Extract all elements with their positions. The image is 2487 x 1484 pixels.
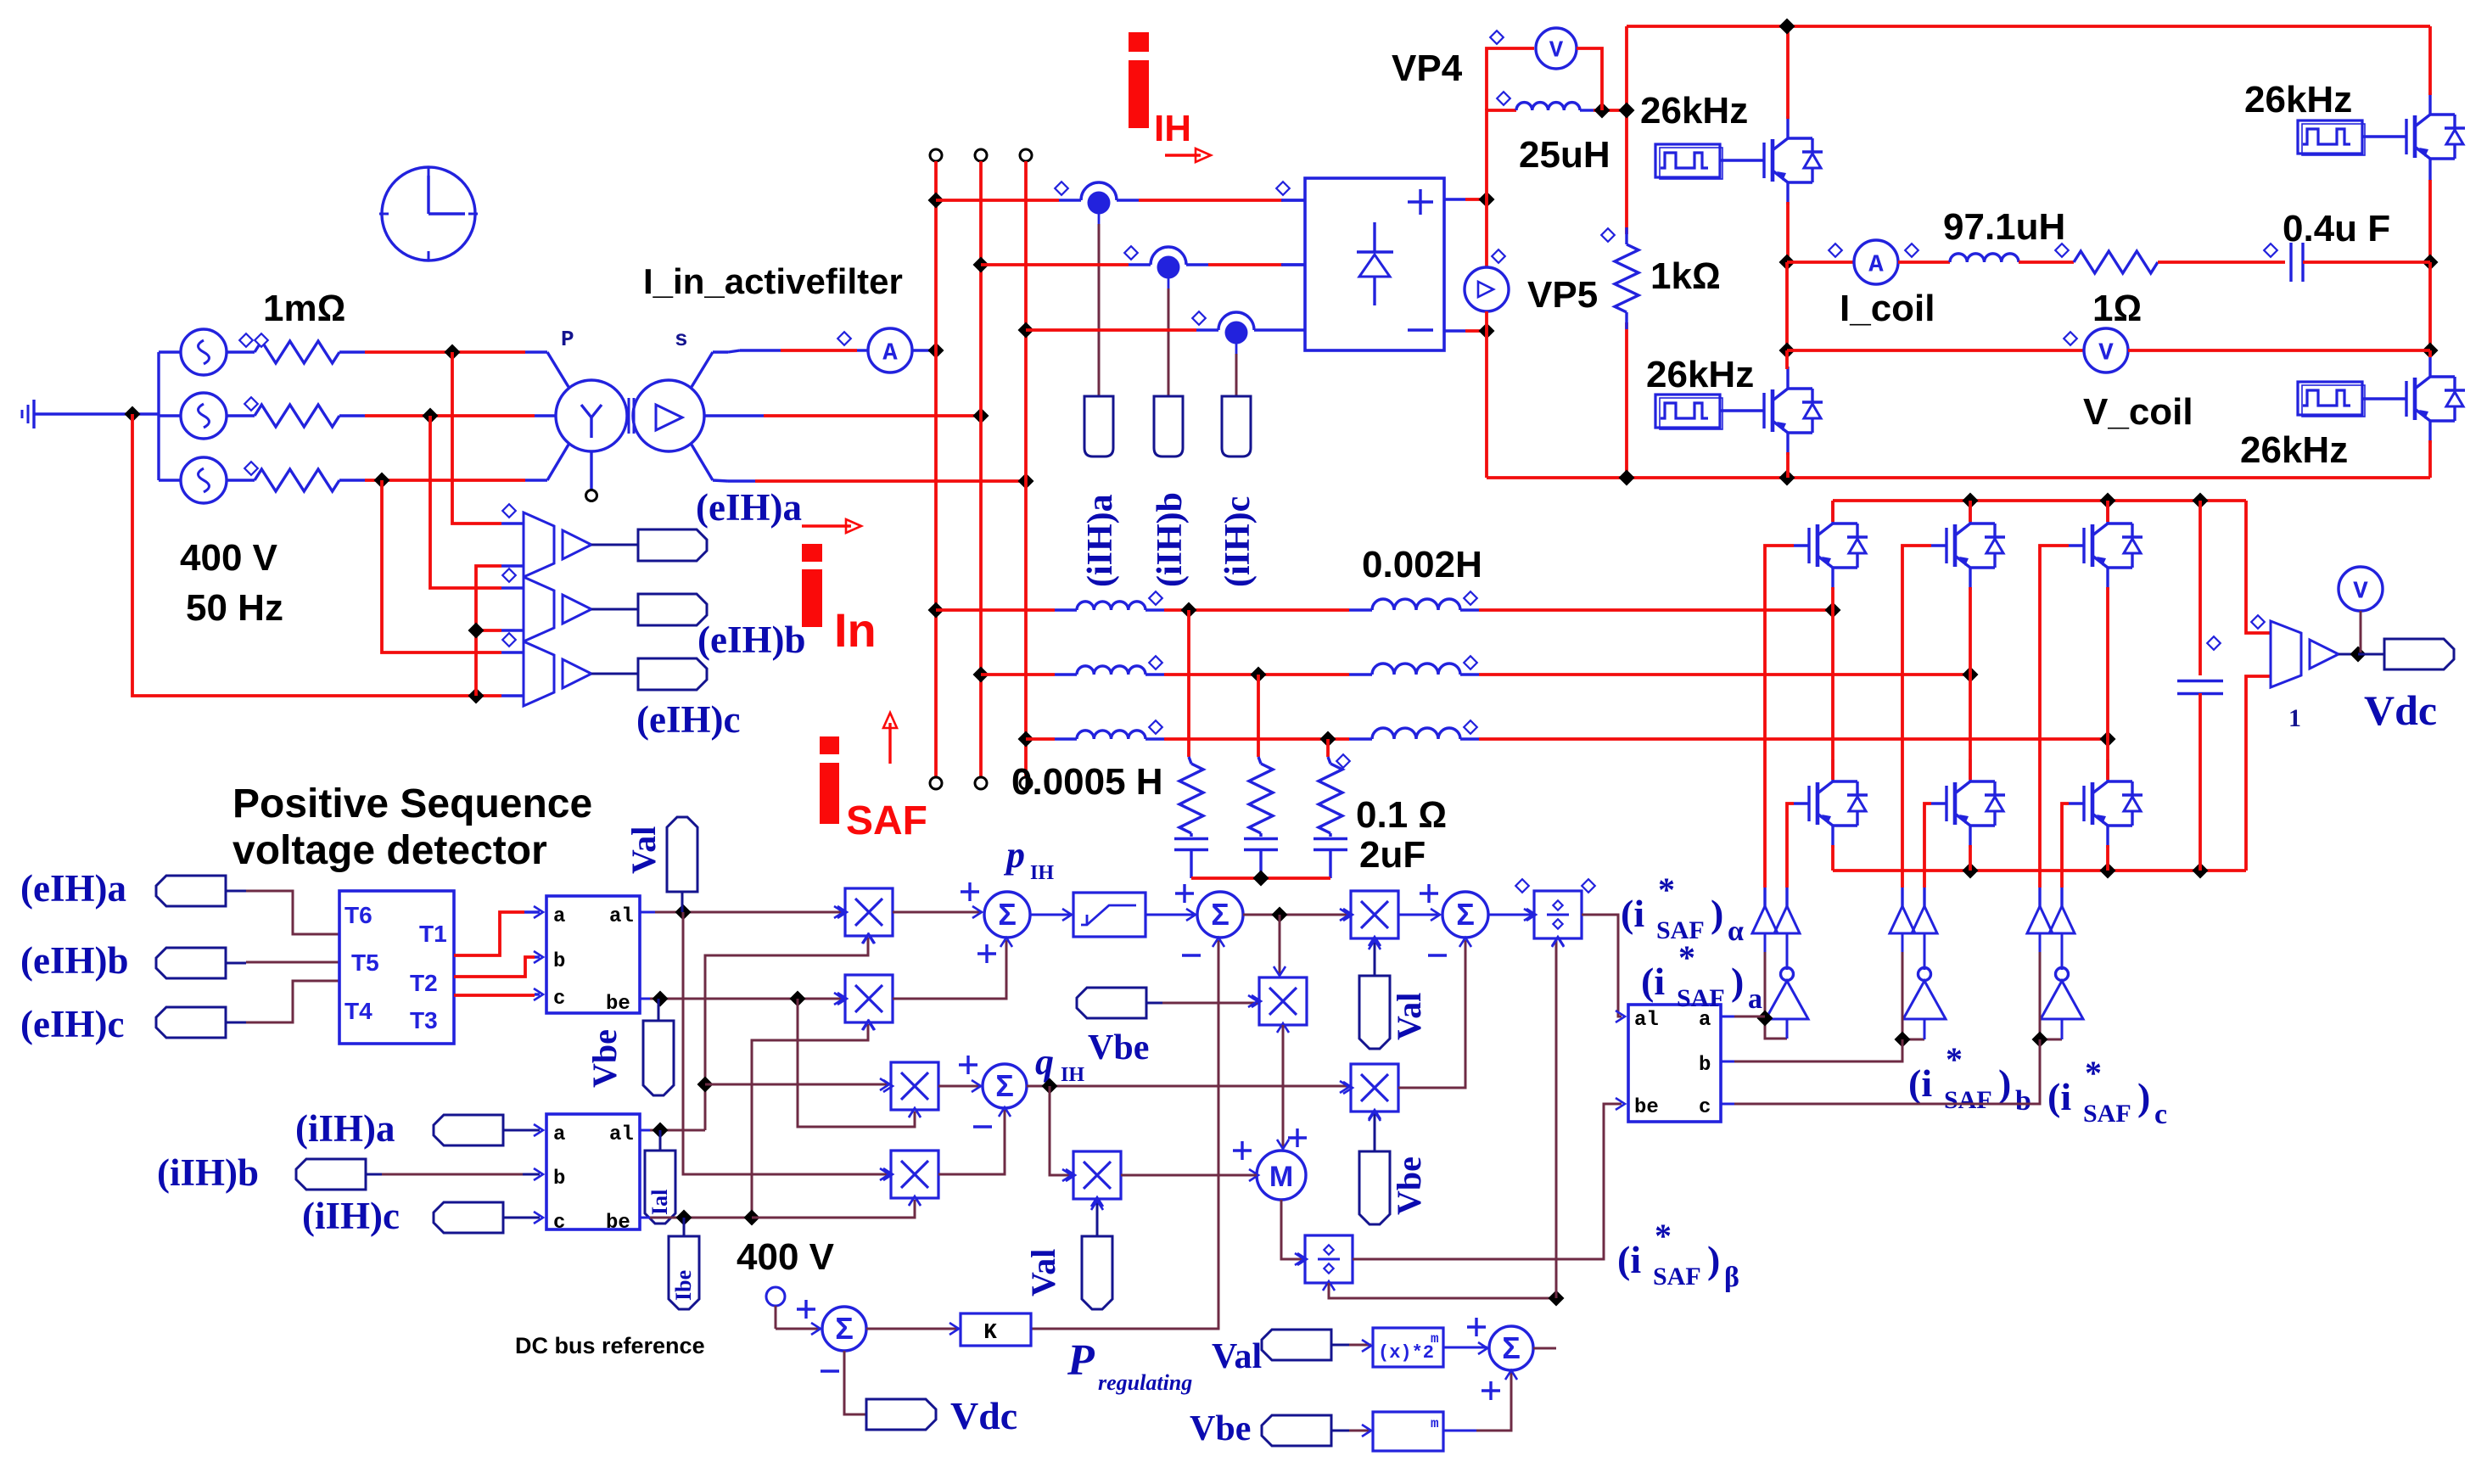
multiplier q2: [891, 1151, 938, 1198]
wire saf right bottom: [2246, 676, 2271, 871]
svg-text:VP4: VP4: [1392, 48, 1463, 89]
wire T2 to b: [454, 957, 535, 977]
wire 25uH to bus: [1594, 109, 1627, 112]
label minus sum3: [1428, 954, 1447, 956]
arrow i direction (eIH)a: [802, 524, 851, 527]
svg-text:c: c: [2154, 1099, 2167, 1130]
svg-text:IH: IH: [1030, 862, 1054, 884]
wire T1 to a: [454, 912, 524, 955]
wire Sb bottom emitter: [1969, 845, 1972, 871]
label box (iIH)a sensor: [1084, 396, 1113, 456]
label box (eIH)a input: [156, 876, 226, 906]
wire gate bottom left: [1720, 409, 1749, 412]
svg-text:SAF: SAF: [1944, 1086, 1992, 1114]
resistor R1b 1mOhm: [227, 414, 255, 417]
label box Vbe vertical: [643, 1021, 674, 1095]
inductor L2c 0.002H: [1349, 737, 1372, 740]
node load branch left: [1779, 255, 1795, 271]
terminal feeder a: [930, 149, 942, 161]
svg-text:(x)*2: (x)*2: [1378, 1342, 1434, 1364]
label i IH red: [1129, 32, 1149, 52]
multiplier M: [1257, 1151, 1306, 1200]
svg-text:400 V: 400 V: [737, 1236, 835, 1278]
transformer T1 primary Y: [525, 350, 547, 353]
wire Vbe output: [640, 998, 650, 1000]
svg-text:m: m: [1431, 1331, 1439, 1347]
wire feeder b vertical: [979, 161, 983, 777]
wire mult q4 to sum3: [1398, 940, 1465, 1088]
wire Vbe pill to mult vb: [1162, 1002, 1258, 1005]
label plus sum3: [1420, 892, 1438, 894]
label box Ibe vertical: [669, 1236, 699, 1309]
node ground junction: [125, 406, 141, 423]
svg-text:Vdc: Vdc: [950, 1394, 1017, 1437]
wire cap to right leg: [2303, 260, 2430, 264]
svg-text:M: M: [1269, 1161, 1293, 1193]
svg-text:b: b: [553, 950, 565, 973]
wire not stub b: [1902, 933, 1904, 952]
label minus sumdc: [821, 1369, 839, 1372]
svg-text:SAF: SAF: [1653, 1263, 1701, 1291]
gate block 26kHz bottom left: [1655, 395, 1720, 428]
svg-text:Vbe: Vbe: [1088, 1028, 1149, 1067]
wire load branch left segment: [1787, 260, 1854, 264]
node vcoil branch left: [1779, 343, 1795, 359]
wire Val to x2m: [1349, 1344, 1371, 1347]
wire Vbe to m block: [1349, 1430, 1371, 1432]
svg-text:(eIH)c: (eIH)c: [20, 1003, 124, 1045]
wire Ibe to mult q2 bottom: [752, 1200, 915, 1218]
svg-text:(eIH)b: (eIH)b: [20, 939, 129, 982]
wire row2 right: [1479, 673, 1970, 676]
terminal feeder a bottom: [930, 777, 942, 789]
wire gate bottom b: [1924, 804, 1931, 888]
capacitor DC link: [2199, 501, 2202, 675]
svg-text:(eIH)a: (eIH)a: [696, 486, 802, 529]
svg-text:): ): [1998, 1061, 2011, 1105]
svg-text:1: 1: [2288, 704, 2301, 732]
wire phase c to sensor3: [382, 480, 501, 652]
svg-text:400 V: 400 V: [180, 537, 278, 579]
IGBT Q4: [2391, 397, 2406, 400]
inductor 25uH: [1516, 103, 1580, 110]
wire Sc bottom emitter: [2106, 845, 2109, 871]
node row2 feeder: [973, 667, 989, 683]
wire phase b to sensor2: [430, 416, 501, 588]
wire buffer to not a: [1786, 933, 1789, 970]
wire mult q2 to sumq: [938, 1110, 1005, 1174]
wire limiter to sum2: [1145, 914, 1196, 916]
label plus sum4 left: [1467, 1325, 1486, 1328]
wire sum2 to mult p3: [1243, 914, 1349, 916]
wire vcoil branch right: [2128, 349, 2430, 352]
wire mult q1 to sumq: [938, 1085, 981, 1088]
gate block 26kHz bottom right: [2298, 382, 2362, 415]
block albe to abc: [1628, 1005, 1721, 1122]
block x squared 2m: [1373, 1328, 1443, 1367]
clock symbol: [382, 167, 475, 260]
svg-text:(iIH)b: (iIH)b: [157, 1151, 259, 1194]
ground: [32, 400, 35, 428]
inductor L1a 0.0005H: [1055, 608, 1077, 611]
node saf bottom leg3: [2100, 863, 2116, 879]
svg-text:A: A: [882, 339, 898, 367]
svg-text:26kHz: 26kHz: [1646, 354, 1754, 395]
wire rectifier minus output: [1444, 329, 1465, 332]
svg-text:Σ: Σ: [998, 897, 1017, 932]
wire Vdc feedback: [844, 1351, 866, 1414]
wire gate bottom c: [2062, 804, 2069, 888]
wire 400V to sumdc: [776, 1328, 821, 1330]
node secondary a junction: [928, 343, 944, 359]
svg-text:Ial: Ial: [647, 1190, 672, 1215]
svg-text:voltage detector: voltage detector: [232, 828, 547, 873]
voltmeter V_coil: [2084, 328, 2128, 372]
svg-text:c: c: [1699, 1096, 1711, 1119]
label minus: [1408, 328, 1433, 331]
IGBT Q2: [1749, 409, 1764, 412]
node bottom bus leg1: [1779, 470, 1795, 486]
svg-text:b: b: [1699, 1054, 1711, 1077]
svg-text:Σ: Σ: [835, 1311, 854, 1346]
wire Sc bottom collector: [2106, 739, 2109, 780]
wire mult p1 to sum1: [893, 911, 982, 914]
buffer (eIH)b: [563, 595, 591, 624]
wire leg2 mid: [2428, 262, 2432, 350]
wire Sc top emitter: [2106, 587, 2109, 739]
wire to inductor: [1898, 260, 1950, 264]
wire to resistor: [2019, 260, 2074, 264]
svg-text:Vbe: Vbe: [585, 1029, 624, 1088]
wire not stub c: [2039, 933, 2042, 952]
current sensor (iIH)b: [1129, 263, 1151, 266]
svg-text:(iIH)a: (iIH)a: [1081, 494, 1120, 587]
IGBT Sb bottom: [1931, 802, 1946, 804]
IGBT Q3: [2391, 135, 2406, 137]
wire m to sum4: [1443, 1430, 1476, 1432]
wire source common vertical: [157, 352, 160, 480]
wire secondary c: [728, 479, 755, 482]
svg-text:1Ω: 1Ω: [2092, 288, 2142, 329]
wire a out to gate a: [1721, 1016, 1734, 1018]
wire Sb top collector: [1969, 501, 1972, 522]
svg-text:b: b: [553, 1168, 565, 1190]
wire Sa bottom collector: [1831, 610, 1834, 780]
wire Q2 collector: [1785, 350, 1789, 369]
arrow i SAF up: [888, 723, 891, 764]
rc branch c riser: [1326, 739, 1330, 757]
svg-text:T1: T1: [419, 921, 447, 947]
node gate b: [1895, 1032, 1911, 1048]
node neutral sensor2: [468, 623, 485, 639]
voltmeter V saf: [2339, 567, 2383, 611]
resistor 1kOhm: [1625, 227, 1627, 244]
wire Ibe to mult p2 bottom: [752, 1024, 868, 1218]
wire Val to mult q2 left: [683, 912, 889, 1174]
buffer gate bottom b: [1912, 906, 1937, 933]
wire gate top left: [1720, 159, 1749, 161]
wire div1 to al input: [1582, 915, 1622, 1016]
wire row1 mid: [1164, 608, 1349, 612]
svg-text:Val: Val: [1390, 993, 1428, 1040]
IGBT Sc top: [2069, 544, 2084, 546]
resistor R1c 1mOhm: [227, 479, 255, 481]
svg-text:1kΩ: 1kΩ: [1650, 255, 1721, 297]
svg-text:(iIH)a: (iIH)a: [295, 1107, 395, 1150]
svg-text:p: p: [1003, 834, 1025, 876]
gate block 26kHz top left: [1655, 144, 1720, 177]
block positive sequence detector: [339, 891, 454, 1044]
wire q to mult q3: [1050, 1086, 1072, 1175]
svg-text:regulating: regulating: [1098, 1370, 1192, 1395]
svg-text:be: be: [1634, 1096, 1659, 1119]
wire Q3 collector: [2428, 26, 2432, 95]
wire (eIH)c to T4: [246, 981, 339, 1022]
node plus: [1479, 192, 1495, 208]
wire vcoil branch left: [1787, 349, 2084, 352]
node Ial: [653, 1123, 669, 1139]
block m: [1373, 1412, 1443, 1451]
voltage sensor (eIH)c: [524, 641, 554, 706]
current sensor (iIH)c output: [1235, 344, 1238, 354]
wire plus up to 25uH: [1487, 110, 1516, 199]
wire K to sum2: [1031, 940, 1218, 1329]
svg-text:): ): [2137, 1075, 2150, 1118]
wire mult vb to M: [1282, 1025, 1285, 1149]
svg-text:a: a: [553, 905, 565, 928]
wire row1 right: [1479, 608, 1833, 612]
svg-text:(i: (i: [2047, 1075, 2071, 1118]
svg-text:26kHz: 26kHz: [2240, 429, 2348, 471]
svg-text:c: c: [553, 988, 565, 1011]
svg-text:Val: Val: [625, 826, 663, 874]
node row1 feeder: [928, 602, 944, 619]
terminal feeder c bottom: [1020, 777, 1032, 789]
inverter NOT a: [1766, 981, 1808, 1019]
label plus M left: [1233, 1149, 1252, 1151]
svg-text:Ibe: Ibe: [671, 1270, 696, 1301]
wire sumdc to K: [866, 1328, 959, 1330]
label box (iIH)b sensor: [1154, 396, 1183, 456]
summer sumdc: [822, 1307, 866, 1351]
label plus sumdc: [797, 1308, 815, 1310]
terminal transformer neutral: [590, 451, 592, 490]
svg-text:b: b: [2015, 1085, 2031, 1117]
wire Q2 emitter: [1786, 452, 1790, 478]
node Ial branch: [697, 1077, 714, 1093]
wire x2m to sum4: [1443, 1347, 1487, 1349]
wire mult p3 to sum3: [1398, 914, 1440, 916]
node secondary b junction: [973, 408, 989, 424]
svg-text:(i: (i: [1908, 1061, 1932, 1105]
svg-text:SAF: SAF: [1677, 984, 1725, 1012]
current sensor (iIH)a: [1059, 199, 1081, 201]
svg-text:al: al: [609, 905, 634, 928]
current sensor (iIH)c: [1196, 328, 1218, 331]
wire sum1 to limiter: [1030, 914, 1072, 916]
label plus sum1 bottom: [977, 952, 996, 955]
IGBT Sa top: [1794, 544, 1809, 546]
svg-text:q: q: [1035, 1041, 1054, 1083]
wire Sb bottom collector: [1969, 675, 1972, 780]
label plus sum2: [1175, 892, 1194, 894]
multiplier p3: [1351, 891, 1398, 938]
label box (eIH)c input: [156, 1007, 226, 1038]
wire row2 to rectifier: [981, 263, 1129, 266]
svg-text:): ): [1731, 960, 1744, 1003]
wire Q4 collector: [2428, 350, 2432, 357]
voltage sensor (eIH)a: [524, 512, 554, 577]
block abc to albe voltage: [546, 896, 640, 1013]
arrow i IH: [1165, 154, 1201, 156]
svg-text:(eIH)b: (eIH)b: [697, 619, 806, 661]
wire row1 left: [936, 608, 1055, 612]
wire secondary b: [737, 414, 764, 417]
wire Ibe output: [640, 1217, 650, 1219]
wire phase a to transformer: [365, 350, 525, 354]
node saf top cap: [2193, 493, 2209, 509]
node phase c: [374, 473, 390, 489]
wire Sa top emitter: [1831, 587, 1834, 610]
svg-text:V: V: [2098, 339, 2114, 367]
node row2 rc: [1251, 667, 1267, 683]
label box (eIH)c: [638, 658, 707, 690]
node saf bottom leg2: [1963, 863, 1979, 879]
wire gate bottom right: [2362, 397, 2391, 400]
gate block 26kHz top right: [2298, 120, 2362, 154]
svg-text:Positive Sequence: Positive Sequence: [232, 781, 592, 826]
voltage sensor Vdc: [2271, 621, 2301, 687]
resistor 1 Ohm load: [2074, 251, 2158, 273]
wire sum3 to div1: [1488, 914, 1533, 916]
wire feeder a vertical: [934, 161, 938, 777]
wire phase a to sensor1: [452, 352, 501, 524]
svg-text:al: al: [1634, 1009, 1659, 1032]
wire row3 left: [1026, 737, 1055, 741]
AC source Vb: [181, 393, 227, 439]
svg-text:97.1uH: 97.1uH: [1943, 206, 2065, 248]
svg-text:be: be: [606, 1212, 630, 1235]
wire Ial to mult q1 left: [705, 1084, 889, 1086]
label box (eIH)b input: [156, 948, 226, 978]
node row1 rc: [1181, 602, 1197, 619]
wire Ial to mult p1 and q1: [705, 938, 868, 1130]
svg-text:In: In: [834, 603, 877, 657]
multiplier q3: [1073, 1151, 1121, 1199]
label box Vbe bottom: [1262, 1415, 1331, 1446]
svg-text:(iIH)c: (iIH)c: [302, 1195, 400, 1237]
label plus sum1 left: [961, 890, 979, 893]
inverter NOT b: [1903, 981, 1946, 1019]
wire beta to div1: [1555, 940, 1558, 1298]
wire Vbe to mult q1 bottom: [798, 999, 915, 1127]
wire saf right top: [2246, 501, 2271, 633]
voltmeter VP5: [1485, 199, 1488, 268]
diode symbol inside rectifier: [1373, 222, 1375, 252]
wire sum4 out: [1533, 1347, 1556, 1350]
wire p to mult vb: [1279, 915, 1281, 976]
label i In red: [802, 544, 822, 562]
transformer core: [628, 398, 630, 434]
node rc rail: [1253, 871, 1269, 887]
wire div2 to be input: [1353, 1104, 1622, 1259]
wire row3 mid: [1164, 737, 1349, 741]
node gate c: [2032, 1032, 2048, 1048]
node saf top leg3: [2100, 493, 2116, 509]
svg-text:25uH: 25uH: [1519, 134, 1610, 176]
rc branch b riser: [1257, 675, 1260, 757]
multiplier q1: [891, 1062, 938, 1110]
svg-text:T4: T4: [344, 998, 372, 1024]
svg-text:I_coil: I_coil: [1840, 288, 1935, 329]
summer sum4: [1489, 1326, 1533, 1370]
buffer gate bottom c: [2049, 906, 2075, 933]
buffer (eIH)a: [563, 530, 591, 559]
svg-text:0.0005 H: 0.0005 H: [1011, 761, 1163, 803]
svg-text:Σ: Σ: [1456, 897, 1475, 932]
buffer gate top b: [1890, 906, 1915, 933]
wire neutral riser: [476, 566, 501, 696]
wire to cap: [2158, 260, 2285, 264]
source 400V ref: [766, 1287, 785, 1306]
wire rc bottom rail: [1191, 876, 1330, 880]
wire Sa bottom emitter: [1831, 845, 1834, 871]
svg-text:V_coil: V_coil: [2083, 391, 2193, 433]
svg-text:*: *: [1678, 938, 1695, 977]
wire M to div2: [1281, 1200, 1304, 1259]
svg-text:s: s: [675, 327, 688, 352]
wire b out to gate b: [1721, 1061, 1734, 1063]
limiter block: [1073, 893, 1145, 937]
wire Sc top collector: [2106, 501, 2109, 522]
wire gate top c: [2040, 546, 2069, 888]
svg-text:26kHz: 26kHz: [2244, 79, 2352, 120]
svg-text:IH: IH: [1061, 1064, 1084, 1086]
wire div2 bottom: [1329, 1283, 1556, 1298]
rectifier bridge: [1305, 178, 1444, 350]
wire ground to sources: [56, 412, 159, 415]
label plus sum4 bottom: [1482, 1389, 1500, 1392]
label box Vbe q4: [1359, 1151, 1390, 1224]
label minus sumq: [973, 1125, 992, 1128]
wire row3 to rectifier: [1026, 328, 1196, 332]
wire feeder c vertical: [1024, 161, 1028, 777]
buffer gate top c: [2027, 906, 2053, 933]
inductor L1b 0.0005H: [1055, 673, 1077, 675]
svg-text:50 Hz: 50 Hz: [186, 587, 283, 629]
wire mult q3 to M: [1121, 1174, 1257, 1177]
svg-text:Σ: Σ: [995, 1068, 1014, 1103]
svg-text:Σ: Σ: [1211, 897, 1229, 932]
wire saf top bus: [1833, 499, 2246, 502]
label i SAF red: [820, 736, 839, 754]
label box (iIH)c input: [434, 1202, 503, 1233]
label box Vdc out: [2358, 653, 2384, 656]
wire phase b to transformer: [365, 414, 535, 417]
node saf leg1 mid: [1825, 602, 1841, 619]
node Vbe b: [790, 991, 806, 1007]
voltage sensor (eIH)b: [524, 577, 554, 641]
label box Vdc feedback: [866, 1399, 936, 1430]
node minus: [1479, 323, 1495, 339]
wire saf bottom bus: [1833, 869, 2246, 872]
svg-text:*: *: [1946, 1040, 1963, 1078]
wire (eIH)b to T5: [246, 961, 339, 964]
wire rectifier plus output: [1444, 198, 1465, 200]
node bus 25uH: [1619, 103, 1635, 119]
wire left bus vertical: [1625, 26, 1628, 234]
svg-text:2uF: 2uF: [1359, 834, 1426, 876]
